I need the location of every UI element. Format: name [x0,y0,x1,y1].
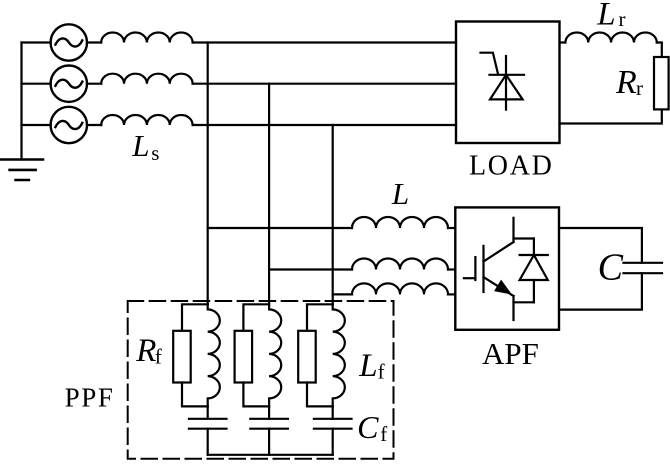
wire C bottom to APF [559,273,642,309]
wire stub bus to source Vc [22,124,51,126]
svg-text:L: L [131,128,149,163]
inductor Ls phase A [101,32,192,42]
inductor L phase A [352,217,448,228]
AC source Vb [51,66,87,102]
svg-text:f: f [378,360,385,384]
wire branch3 to cap [332,406,334,418]
wire branch1 to cap [207,406,209,418]
svg-text:PPF: PPF [65,383,115,413]
wire branch3 top connector [307,304,333,331]
svg-text:L: L [596,0,615,33]
svg-text:LOAD: LOAD [469,151,554,182]
wire branch2 cap to bottom bus [268,429,270,455]
svg-text:R: R [135,333,156,369]
wire branch2 top connector [243,304,269,331]
inductor L phase B [352,259,448,270]
IGBT inside APF [464,218,514,320]
resistor Rf branch2 [235,331,253,383]
wire stub bus to source Va [22,41,51,43]
svg-text:r: r [636,76,643,100]
wire branch3 R bottom [307,383,333,407]
inductor Ls phase B [101,74,192,84]
resistor Rf branch1 [173,331,191,383]
svg-text:s: s [151,141,159,165]
svg-text:C: C [598,247,624,289]
AC source Vc [51,107,87,143]
wire branch3 cap to bottom bus [332,429,334,455]
wire vertical bus phase B [268,84,270,305]
wire vertical bus phase C [332,125,334,304]
svg-text:r: r [619,7,626,31]
wire bottom bus connecting branches [208,454,333,456]
wire branch2 R bottom [243,383,269,407]
wire source Vb to Ls [87,83,101,85]
svg-text:f: f [380,422,387,446]
wire source Vc to Ls [87,124,101,126]
wire branch1 R bottom [182,383,208,407]
wire LOAD to Lr [560,41,566,43]
AC source Va [51,24,87,60]
diode inside APF [514,239,548,303]
svg-text:APF: APF [482,336,539,371]
wire L to APF row A [448,227,455,229]
wire branch1 top connector [182,304,208,331]
wire left source bus vertical [20,43,22,160]
resistor Rf branch3 [298,331,316,383]
wire Lr corner down to Rr [657,43,662,57]
wire phase A to LOAD [193,41,456,43]
wire APF to C top [559,228,642,263]
capacitor Cf branch2 [250,419,288,429]
svg-text:L: L [358,348,377,384]
capacitor Cf branch1 [189,419,227,429]
wire source Va to Ls [87,41,101,43]
svg-text:f: f [155,345,162,369]
capacitor C [624,263,663,273]
inductor Lf branch2 [269,304,281,406]
wire phase C to LOAD [193,124,456,126]
wire L to APF row B [448,268,455,270]
wire phase B tap to L [269,268,352,270]
wire Rr bottom back to LOAD [560,110,662,124]
capacitor Cf branch3 [314,419,352,429]
wire stub bus to source Vb [22,83,51,85]
inductor Lf branch3 [333,304,345,406]
svg-text:L: L [391,176,409,211]
LOAD block [456,22,560,144]
resistor Rr [654,57,669,109]
inductor Ls phase C [101,115,192,125]
wire branch1 cap to bottom bus [207,429,209,455]
wire phase B to LOAD [193,83,456,85]
PPF boundary dashed [128,301,394,459]
svg-text:C: C [357,409,379,445]
wire L to APF row C [448,293,455,295]
wire phase A tap to L [208,227,352,229]
APF block [455,207,559,329]
inductor L phase C [352,283,448,294]
wire vertical bus phase A [207,43,209,305]
inductor Lf branch1 [208,304,220,406]
wire phase C tap to L [333,293,352,295]
ground [0,160,43,181]
wire branch2 to cap [268,406,270,418]
svg-text:R: R [615,64,637,101]
thyristor inside LOAD [481,53,525,110]
inductor Lr [565,32,656,42]
